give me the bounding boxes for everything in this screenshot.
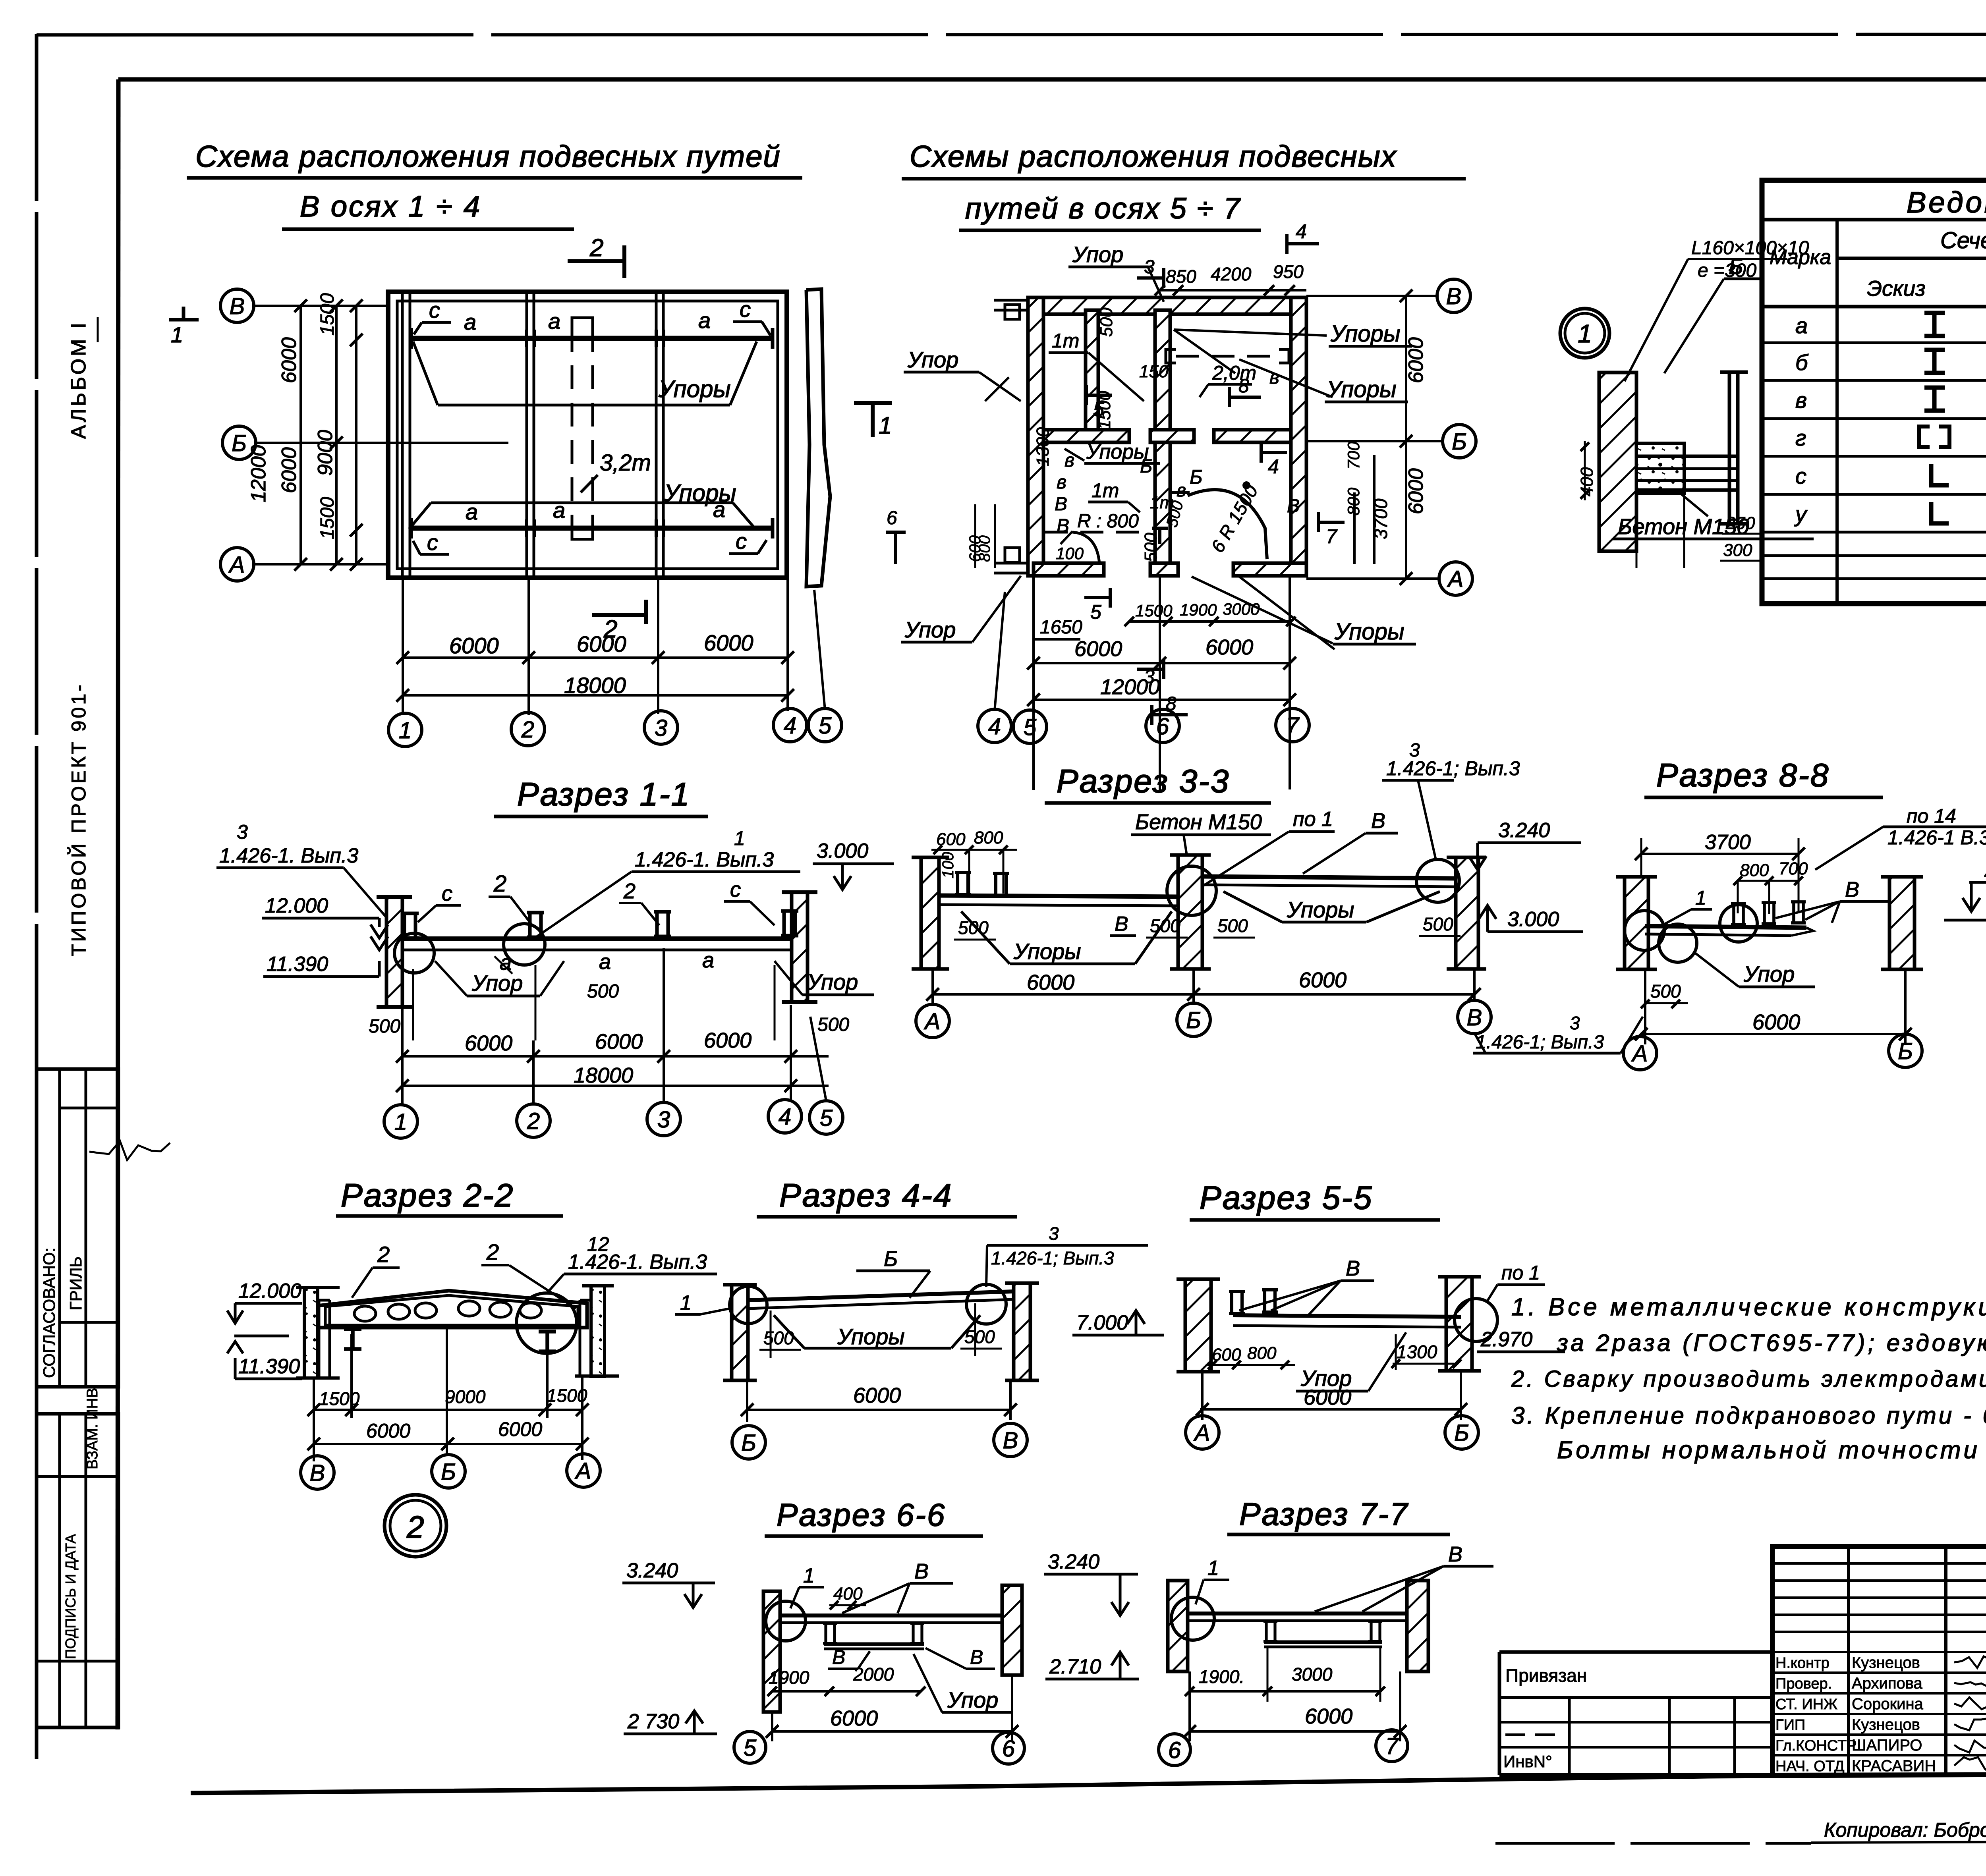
svg-text:6000: 6000 <box>704 1029 752 1052</box>
signature in stamp <box>89 1141 170 1160</box>
plan1 wall axis1 double line <box>401 294 404 576</box>
svg-text:3.240: 3.240 <box>626 1559 678 1582</box>
svg-text:1.426-1. Вып.3: 1.426-1. Вып.3 <box>568 1251 707 1274</box>
axis circle А <box>1186 1416 1219 1449</box>
outer sheet border left <box>35 34 39 1759</box>
svg-text:500: 500 <box>1150 915 1180 936</box>
svg-text:1: 1 <box>399 718 411 743</box>
svg-text:В: В <box>1057 515 1069 537</box>
svg-text:1: 1 <box>734 827 745 849</box>
svg-text:В: В <box>1346 1256 1360 1280</box>
svg-text:В: В <box>914 1559 929 1583</box>
svg-text:c: c <box>427 530 438 555</box>
svg-text:12000: 12000 <box>1100 675 1160 699</box>
plan2 dim 6000/6000 <box>1034 662 1290 664</box>
svg-text:5: 5 <box>744 1735 757 1761</box>
svg-text:500: 500 <box>1423 914 1453 934</box>
node 1 detail circle <box>1560 309 1609 358</box>
svg-text:800: 800 <box>1247 1343 1277 1363</box>
svg-text:Болты нормальной точности М: Болты нормальной точности М 16 (ГОСТ 779… <box>1557 1436 1986 1464</box>
axis circle 1 <box>384 1105 417 1138</box>
svg-text:в: в <box>1177 480 1186 500</box>
section mark 2 bottom of plan1 <box>592 613 646 617</box>
svg-text:Разрез 4-4: Разрез 4-4 <box>779 1177 952 1214</box>
svg-text:100: 100 <box>1056 544 1084 563</box>
svg-text:А: А <box>228 552 245 578</box>
plan1 bottom rail <box>411 526 773 531</box>
r33 right wall <box>1456 857 1478 969</box>
r77 left wall <box>1168 1581 1188 1671</box>
svg-text:950: 950 <box>1273 261 1304 282</box>
svg-text:2: 2 <box>521 717 534 743</box>
r33 mid wall <box>1178 855 1202 969</box>
svg-text:Б: Б <box>441 1459 456 1485</box>
svg-text:Б: Б <box>1452 429 1467 455</box>
axis circle Б <box>1443 425 1476 458</box>
svg-text:В: В <box>1287 496 1300 517</box>
r11 rails <box>401 913 419 938</box>
r22 dim line 6000 6000 <box>314 1443 582 1445</box>
section mark 1 left <box>169 318 199 322</box>
svg-text:500: 500 <box>1141 533 1161 562</box>
plan2 dim 12000 <box>1034 699 1290 701</box>
section mark 6 left <box>894 532 897 564</box>
svg-text:6000: 6000 <box>853 1384 901 1407</box>
svg-text:Б: Б <box>884 1247 898 1271</box>
svg-text:В: В <box>1467 1005 1482 1031</box>
r66 left wall <box>763 1591 780 1712</box>
section mark 5 lower <box>1084 596 1110 599</box>
svg-text:5: 5 <box>1090 601 1101 623</box>
inner frame left <box>118 79 118 1729</box>
r55 detail circle right <box>1455 1299 1497 1341</box>
svg-text:В: В <box>970 1646 983 1668</box>
svg-text:5: 5 <box>1024 714 1037 740</box>
axis circle 7 <box>1276 708 1309 742</box>
svg-text:2: 2 <box>623 879 636 903</box>
section mark 7 <box>1319 521 1345 524</box>
plan2 bottom-left wall piece <box>1034 563 1104 576</box>
svg-text:250: 250 <box>1725 513 1755 533</box>
node 1 vertical rail element <box>1728 372 1731 524</box>
plan2 monorail dashed top room <box>1176 355 1279 358</box>
r22 node mark 2 double circle <box>384 1495 446 1557</box>
svg-text:за 2раза (ГОСТ695-77); ездовую: за 2раза (ГОСТ695-77); ездовую поверхнос… <box>1557 1330 1986 1356</box>
svg-text:3. Крепление подкранового пути: 3. Крепление подкранового пути - болтово… <box>1511 1402 1986 1429</box>
node 1 concrete notch <box>1636 443 1684 493</box>
r11 left wall hatched <box>386 897 402 1007</box>
svg-text:Разрез 7-7: Разрез 7-7 <box>1239 1496 1408 1532</box>
r55 dim 6000 <box>1200 1408 1461 1411</box>
svg-text:6000: 6000 <box>1752 1010 1800 1034</box>
svg-text:Упоры: Упоры <box>1330 321 1401 347</box>
r22 slab outline <box>318 1291 587 1328</box>
svg-text:В: В <box>1115 913 1128 936</box>
svg-text:1: 1 <box>879 412 892 439</box>
svg-text:Упор: Упор <box>1072 242 1123 267</box>
svg-text:1.426-1; Вып.3: 1.426-1; Вып.3 <box>991 1248 1114 1268</box>
dash in row <box>1505 1733 1561 1736</box>
dim lines right inside <box>1353 492 1356 564</box>
section mark T1 right <box>854 401 892 405</box>
svg-text:6000: 6000 <box>704 630 753 655</box>
svg-text:18000: 18000 <box>564 673 626 698</box>
svg-text:500: 500 <box>964 1326 995 1347</box>
svg-text:2: 2 <box>486 1239 499 1264</box>
plan1 column line axis2 <box>525 294 528 576</box>
svg-text:6000: 6000 <box>498 1418 542 1440</box>
axis circle Б <box>732 1426 765 1459</box>
svg-text:500: 500 <box>1217 915 1248 936</box>
svg-text:Упор: Упор <box>807 969 858 994</box>
svg-text:4200: 4200 <box>1211 264 1252 284</box>
svg-text:Бетон М150: Бетон М150 <box>1135 810 1262 834</box>
r66 node circle left <box>766 1601 806 1641</box>
plan1 right wavy wall strip <box>806 289 830 587</box>
svg-text:В: В <box>1845 878 1859 901</box>
svg-text:12.000: 12.000 <box>265 894 328 917</box>
r77 node circle <box>1171 1597 1214 1640</box>
r44 right wall <box>1014 1283 1030 1380</box>
svg-text:c: c <box>442 882 452 905</box>
plan2 inner wall axis6 upper <box>1155 310 1170 430</box>
svg-text:3.000: 3.000 <box>1507 908 1559 931</box>
svg-text:Марка: Марка <box>1770 246 1831 269</box>
section mark 8 in plan <box>1229 396 1261 399</box>
svg-text:R : 800: R : 800 <box>1077 511 1139 532</box>
svg-text:а: а <box>1795 313 1808 338</box>
svg-text:1900: 1900 <box>769 1667 809 1688</box>
svg-text:11.390: 11.390 <box>238 1355 300 1378</box>
svg-text:6000: 6000 <box>278 337 301 383</box>
svg-text:7: 7 <box>1326 525 1338 548</box>
svg-text:c: c <box>730 878 741 901</box>
section mark 4 top <box>1287 242 1319 245</box>
privyazan block <box>1499 1650 1772 1654</box>
svg-text:В: В <box>1446 284 1462 309</box>
svg-text:3000: 3000 <box>1292 1664 1333 1685</box>
svg-text:1650: 1650 <box>1040 617 1082 638</box>
svg-text:Ведомость: Ведомость <box>1907 186 1986 219</box>
plan1 top rail <box>411 336 773 341</box>
monorail dashed rect 3.2t <box>571 328 574 527</box>
svg-text:6000: 6000 <box>449 633 499 658</box>
axis circle Б <box>1445 1416 1478 1449</box>
axis circle 5 <box>808 708 842 742</box>
r11 dim line 6000s <box>402 1055 829 1058</box>
svg-text:700: 700 <box>1344 441 1363 469</box>
axis circle А <box>916 1004 949 1038</box>
svg-text:Упоры: Упоры <box>1326 376 1397 402</box>
plan1 bottom extension lines <box>402 578 404 715</box>
svg-text:Упор: Упор <box>904 617 956 642</box>
section mark 3 bottom <box>1137 668 1164 671</box>
svg-text:В: В <box>1003 1428 1018 1453</box>
vedomost table outer border <box>1762 180 1986 604</box>
svg-text:Кузнецов: Кузнецов <box>1852 1654 1920 1671</box>
svg-text:6000: 6000 <box>1404 337 1428 383</box>
svg-text:Разрез 6-6: Разрез 6-6 <box>777 1497 946 1532</box>
svg-text:Упоры: Упоры <box>837 1324 904 1349</box>
upory leaders top room <box>1174 330 1235 373</box>
svg-text:Упор: Упор <box>471 971 523 996</box>
svg-text:3: 3 <box>655 715 667 741</box>
svg-text:АЛЬБОМ I: АЛЬБОМ I <box>67 320 90 439</box>
svg-text:в: в <box>1057 472 1066 493</box>
svg-text:c: c <box>740 297 751 322</box>
svg-text:1.426-1; Вып.3: 1.426-1; Вып.3 <box>1476 1032 1604 1053</box>
svg-text:Б: Б <box>741 1430 756 1456</box>
svg-text:А: А <box>924 1009 941 1035</box>
svg-text:Упоры: Упоры <box>1086 440 1149 463</box>
vedomost header bottom line <box>1762 305 1986 309</box>
plan2 top wall hatched <box>1028 297 1306 314</box>
svg-text:В: В <box>1371 809 1385 833</box>
section mark 4 lower <box>1261 451 1287 454</box>
svg-text:5: 5 <box>819 713 832 739</box>
vedomost verticals <box>1835 220 1839 604</box>
svg-text:Схема расположения подвесных п: Схема расположения подвесных путей <box>195 140 781 174</box>
plan2 inner wall top-left room <box>1086 310 1098 430</box>
svg-text:6000: 6000 <box>1206 635 1253 659</box>
r33 right beam <box>1202 876 1456 878</box>
svg-text:г: г <box>1795 425 1806 450</box>
r22 detail circle <box>516 1293 577 1353</box>
svg-text:2: 2 <box>527 1108 540 1134</box>
svg-text:6: 6 <box>1002 1736 1015 1762</box>
svg-text:3: 3 <box>657 1107 670 1133</box>
svg-text:путей в осях 5 ÷ 7: путей в осях 5 ÷ 7 <box>965 192 1241 225</box>
r88 beam <box>1645 926 1806 928</box>
r66 lower assembly <box>824 1642 924 1646</box>
svg-text:Упор: Упор <box>1743 961 1795 986</box>
svg-text:Упоры: Упоры <box>1287 897 1354 922</box>
svg-text:3.240: 3.240 <box>1048 1550 1099 1573</box>
svg-text:500: 500 <box>958 917 989 938</box>
svg-text:1.426-1 В.3: 1.426-1 В.3 <box>1887 826 1986 849</box>
r22 left wall concrete <box>304 1287 318 1378</box>
svg-text:В: В <box>832 1646 845 1668</box>
plan2 right wall hatched axis7 <box>1291 297 1306 576</box>
svg-text:c: c <box>736 529 747 554</box>
frame bottom line <box>191 1772 1986 1793</box>
svg-text:1: 1 <box>394 1109 407 1135</box>
r55 left wall <box>1185 1279 1211 1372</box>
axis circle 1 <box>388 713 422 747</box>
svg-text:1900: 1900 <box>1180 600 1217 619</box>
svg-text:7: 7 <box>1385 1733 1399 1759</box>
svg-text:по 14: по 14 <box>1907 805 1956 827</box>
svg-text:2.970: 2.970 <box>1480 1328 1532 1351</box>
r33 rails left <box>955 872 971 895</box>
svg-text:4: 4 <box>988 714 1001 739</box>
plan2 top dim line <box>1160 289 1306 291</box>
svg-text:850: 850 <box>1166 266 1196 287</box>
svg-text:e =300: e =300 <box>1698 260 1756 281</box>
svg-text:300: 300 <box>1723 540 1752 560</box>
svg-text:В осях 1 ÷ 4: В осях 1 ÷ 4 <box>300 190 481 223</box>
svg-text:2: 2 <box>377 1242 390 1267</box>
r22 vertical extensions <box>313 1378 315 1461</box>
svg-text:Привязан: Привязан <box>1505 1665 1587 1686</box>
svg-text:4: 4 <box>784 713 796 739</box>
svg-text:1: 1 <box>1695 887 1706 909</box>
plan2 bottom right wall piece <box>1233 563 1306 576</box>
svg-text:в: в <box>1269 367 1279 388</box>
svg-text:3000: 3000 <box>1223 600 1260 618</box>
plan2 left outrigger lines <box>994 299 1028 302</box>
svg-text:3.000: 3.000 <box>817 840 868 863</box>
section mark 5 upper <box>1086 394 1112 397</box>
axis circle 4 <box>978 709 1011 743</box>
svg-text:6000: 6000 <box>595 1030 643 1054</box>
svg-text:a: a <box>698 308 711 333</box>
svg-text:2.970: 2.970 <box>1984 859 1986 882</box>
r88 leader line from 3/1.426 text <box>1621 1017 1643 1053</box>
r77 beam <box>1188 1612 1407 1615</box>
section mark 3 top <box>1137 276 1164 280</box>
r55 right wall <box>1446 1277 1472 1371</box>
svg-text:500: 500 <box>587 981 619 1002</box>
r55 rails on top <box>1229 1291 1245 1314</box>
svg-text:6000: 6000 <box>1404 468 1428 514</box>
axis circle А <box>1623 1036 1657 1070</box>
title block small rows top-left <box>1772 1562 1986 1565</box>
plan1 dim line 6000x3 <box>403 656 788 659</box>
svg-text:800: 800 <box>1740 861 1769 880</box>
svg-text:2.710: 2.710 <box>1049 1655 1101 1678</box>
svg-text:3.240: 3.240 <box>1498 819 1550 842</box>
vedomost title row line <box>1762 218 1986 222</box>
svg-text:a: a <box>548 309 560 334</box>
svg-text:НАЧ. ОТД: НАЧ. ОТД <box>1775 1758 1845 1775</box>
svg-text:6000: 6000 <box>465 1031 512 1055</box>
node 1 beam lines <box>1636 455 1738 458</box>
svg-text:1т: 1т <box>1052 330 1079 352</box>
bottom line of title block left part <box>1499 1773 1772 1777</box>
r11 dim 18000 <box>402 1085 829 1087</box>
arc R800 <box>1072 532 1099 564</box>
svg-text:2000: 2000 <box>853 1664 894 1685</box>
section mark T mid <box>1152 527 1168 530</box>
upory trapezoid bottom <box>431 502 733 504</box>
axis circle Б <box>1177 1003 1210 1036</box>
svg-text:1500: 1500 <box>547 1385 587 1406</box>
r22 rails below <box>344 1329 361 1349</box>
svg-text:б: б <box>1795 350 1809 375</box>
r33 extensions <box>931 969 934 1005</box>
svg-text:1.426-1. Вып.3: 1.426-1. Вып.3 <box>219 844 358 867</box>
axis circle В <box>301 1456 334 1489</box>
r88 detail circles <box>1625 911 1664 950</box>
svg-text:Н.контр: Н.контр <box>1775 1655 1830 1671</box>
svg-text:100: 100 <box>939 852 957 878</box>
svg-text:1: 1 <box>1207 1557 1219 1580</box>
axis circle В <box>1458 1000 1491 1034</box>
r55 beam <box>1233 1315 1461 1317</box>
r44 left wall <box>732 1285 748 1380</box>
svg-text:3: 3 <box>237 821 248 843</box>
svg-text:Упоры: Упоры <box>1013 939 1081 964</box>
vedomost subheader line <box>1837 257 1986 260</box>
svg-text:Схемы расположения подвесных: Схемы расположения подвесных <box>910 140 1397 174</box>
plan1 dim line 18000 <box>403 694 788 697</box>
svg-text:6000: 6000 <box>1304 1386 1351 1409</box>
svg-text:с: с <box>1795 463 1806 488</box>
svg-text:7: 7 <box>1286 713 1300 739</box>
svg-text:2: 2 <box>589 234 603 262</box>
title block row lines labeled <box>1772 1651 1986 1653</box>
svg-text:500: 500 <box>369 1016 400 1037</box>
outer sheet border top <box>37 34 1986 35</box>
left stamp table 1 (soglasovano) <box>37 1069 118 1387</box>
privyazan sub verticals <box>1499 1696 1772 1699</box>
svg-text:Эскиз: Эскиз <box>1867 276 1926 301</box>
svg-text:1. Все металлические конструкц: 1. Все металлические конструкции окрасит… <box>1511 1293 1986 1321</box>
axis circle 7 <box>1376 1730 1408 1762</box>
svg-text:3: 3 <box>1144 257 1155 278</box>
axis circle 6 <box>993 1732 1024 1764</box>
axis line B(mid) to plan <box>255 442 508 444</box>
svg-text:150: 150 <box>1139 362 1169 381</box>
svg-text:5: 5 <box>820 1105 833 1131</box>
r44 detail circles <box>730 1286 767 1324</box>
svg-text:по 1: по 1 <box>1501 1262 1540 1284</box>
svg-text:Упоры: Упоры <box>658 376 731 402</box>
left stamp table 2 (vzam inv / podpis) <box>37 1414 118 1727</box>
r77 lower assembly <box>1264 1641 1382 1644</box>
plan1 column line axis3 <box>655 294 658 576</box>
rail line into arc <box>1170 491 1190 494</box>
svg-text:Сорокина: Сорокина <box>1852 1695 1924 1713</box>
svg-text:6000: 6000 <box>830 1706 878 1730</box>
axis circle 3 <box>644 711 678 744</box>
svg-text:В: В <box>1055 494 1067 515</box>
svg-text:Б: Б <box>1186 1007 1201 1033</box>
axis circle 4 <box>768 1100 802 1133</box>
svg-text:1500: 1500 <box>317 293 338 336</box>
axis circle Б <box>222 426 256 459</box>
plan2 monorail bottom rooms <box>1045 531 1152 534</box>
axis circle 5 <box>809 1101 843 1134</box>
svg-text:6000: 6000 <box>1074 637 1122 661</box>
svg-text:В: В <box>310 1460 325 1486</box>
svg-text:ПОДПИСЬ И ДАТА: ПОДПИСЬ И ДАТА <box>62 1534 79 1659</box>
plan1 outer wall rectangle <box>388 292 787 578</box>
r88 dim 6000 <box>1641 1033 1905 1035</box>
svg-text:4: 4 <box>779 1104 791 1130</box>
plan2 extension to circles <box>1032 576 1035 790</box>
svg-text:500: 500 <box>1650 981 1681 1002</box>
axis circle В <box>220 289 254 322</box>
inner frame top <box>118 77 1986 82</box>
svg-text:1: 1 <box>680 1291 692 1314</box>
svg-text:1300: 1300 <box>1033 427 1053 466</box>
r11 detail circles <box>394 933 434 973</box>
svg-text:6000: 6000 <box>1027 971 1074 994</box>
r44 dim 6000 <box>747 1409 1010 1411</box>
vedomost row lines <box>1762 342 1986 344</box>
svg-text:Упор: Упор <box>907 347 958 372</box>
axis circle 6 <box>1159 1734 1190 1766</box>
svg-text:500: 500 <box>763 1328 794 1348</box>
svg-text:1300: 1300 <box>1397 1341 1437 1362</box>
svg-text:Архипова: Архипова <box>1852 1675 1923 1692</box>
svg-text:ГРИЛЬ: ГРИЛЬ <box>66 1256 85 1310</box>
r44 beam <box>748 1291 1014 1300</box>
axis circle 4 <box>773 708 807 742</box>
svg-text:Разрез 2-2: Разрез 2-2 <box>341 1177 514 1214</box>
